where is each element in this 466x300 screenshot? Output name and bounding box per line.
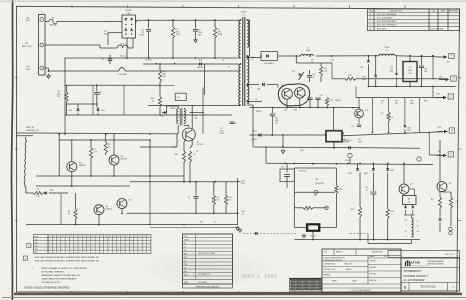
junction y86d	[421, 86, 423, 88]
scan page left edge shadow	[12, 0, 13, 300]
wire u2 down	[333, 142, 335, 148]
junction y107 c	[309, 107, 311, 109]
resistor R7	[89, 148, 92, 159]
junction y163 3	[373, 163, 375, 165]
junction y163 4	[387, 163, 389, 165]
wire stub bridge ac2	[108, 32, 122, 34]
wire v419	[419, 98, 421, 133]
junction R3 top	[159, 63, 161, 65]
wire y163 left drop	[265, 147, 267, 163]
inductor L1	[379, 54, 395, 56]
wire Q3 up	[113, 134, 115, 155]
diode CR12b	[412, 205, 414, 207]
wire u3 right	[320, 227, 336, 229]
diode CR16	[372, 163, 374, 168]
transistor Q7	[295, 88, 306, 99]
wire q7 down	[299, 98, 301, 107]
regulator U2 box	[326, 131, 342, 142]
diode CR18	[438, 218, 441, 220]
wire T1 sec tap4	[247, 104, 253, 106]
wire h176 to R	[140, 175, 184, 177]
junction r12a	[432, 78, 434, 80]
wire dashed2	[243, 233, 296, 235]
junction h176	[149, 175, 151, 177]
wire Q3 down	[113, 165, 115, 176]
wire bottom long bus	[26, 224, 238, 226]
wire q6q7 feed	[295, 56, 297, 63]
junction y239 b	[373, 239, 375, 241]
wire dashed shield	[150, 227, 236, 229]
regulator U4 box	[403, 196, 417, 205]
junction bb1	[75, 224, 77, 226]
junction q2b	[71, 185, 73, 187]
wire Q2 down	[71, 172, 73, 186]
ground dashed end	[239, 229, 241, 230]
junction y224 b	[183, 224, 185, 226]
transistor Q8	[437, 182, 447, 192]
wire T2 left leads	[177, 133, 178, 135]
wire h186	[36, 185, 130, 187]
junction y181 e	[149, 181, 151, 183]
junction y213 f	[213, 213, 215, 215]
wire J1 pin2 right	[45, 44, 100, 46]
junction y224 a	[149, 224, 151, 226]
resistor R10	[225, 182, 227, 195]
junction y56c	[331, 55, 333, 57]
junction c12	[272, 134, 274, 136]
wire y85 ext	[160, 84, 174, 86]
capacitor C8	[230, 121, 235, 123]
connector J1	[39, 15, 46, 76]
resistor R30	[182, 151, 185, 162]
resistor R14h	[345, 77, 356, 80]
wire y86 rail	[368, 85, 456, 87]
junction l1out b	[421, 55, 423, 57]
wire q9 up	[403, 164, 405, 184]
rect CR5 box	[261, 52, 278, 61]
wire v253	[252, 105, 254, 147]
wire CR2 row	[143, 63, 239, 65]
jumper circles r18	[449, 227, 452, 230]
wire right bus v237	[237, 178, 239, 225]
resistor R23	[359, 172, 361, 207]
ground chassis input	[48, 74, 50, 76]
resistor R17b	[388, 98, 390, 113]
wire y155 row	[429, 154, 441, 156]
resistor R13	[325, 98, 328, 106]
wire T1 sec tap1	[247, 57, 261, 59]
wire q6 down	[286, 99, 288, 107]
wire Q5 down	[121, 209, 123, 214]
wire v150 low	[149, 176, 151, 225]
diode CR13	[259, 133, 262, 137]
junction bridge top	[135, 21, 137, 23]
junction y134 row	[58, 133, 60, 135]
wire J1 pin1 to fuse	[45, 21, 49, 23]
right title block	[401, 258, 460, 291]
note2 marker	[23, 256, 27, 260]
wire a1 mid2	[294, 207, 303, 209]
capacitor C15	[309, 99, 311, 108]
revision table	[368, 9, 460, 31]
jumper W1	[325, 206, 329, 210]
junction b181a	[183, 181, 185, 183]
ground u3	[303, 234, 305, 235]
wire tap1 to CR5	[260, 56, 262, 58]
wire v150	[149, 140, 151, 176]
junction y56d	[368, 55, 370, 57]
wire Q4 down	[98, 215, 100, 225]
inductor L2	[412, 218, 414, 237]
capacitor C22	[372, 172, 374, 191]
resistor R17	[439, 191, 441, 197]
junction y56e	[375, 55, 377, 57]
junction y163 0	[284, 163, 286, 165]
junction b134	[149, 133, 151, 135]
capacitor C18r	[421, 56, 423, 65]
resistor R3	[159, 64, 161, 70]
junction l1out c	[432, 55, 434, 57]
junction y56a	[295, 55, 297, 57]
wire C5 to transformer	[125, 70, 239, 72]
inductor L3	[301, 54, 314, 56]
junction R7	[90, 139, 92, 141]
capacitor C23	[372, 224, 374, 226]
diode CR5	[266, 54, 268, 57]
junction R1 top	[172, 19, 174, 21]
wire R5 row	[43, 192, 45, 194]
junction lv59	[58, 133, 60, 135]
wire left vert 59	[58, 134, 60, 176]
wire Q1 collector	[191, 106, 193, 130]
note3 jumper table	[33, 235, 151, 254]
wire a1 mid1	[294, 191, 335, 193]
wire y97 row	[356, 97, 443, 99]
capacitor C7	[109, 55, 111, 58]
center title block	[322, 249, 401, 292]
junction y63 row	[156, 63, 158, 65]
junction C2 top	[195, 19, 197, 21]
wire bus y239	[294, 239, 420, 241]
wire u3 left	[294, 227, 306, 229]
resistor R9	[213, 182, 215, 195]
junction R8	[105, 133, 107, 135]
scan bottom dark band	[14, 293, 462, 296]
junction b181c	[214, 181, 216, 183]
junction b181b	[189, 181, 191, 183]
junction y56 f	[260, 55, 262, 57]
thermistor RT1	[117, 45, 128, 48]
diode CR3	[76, 109, 79, 111]
wire h176	[36, 175, 140, 177]
junction v237	[237, 212, 239, 214]
wire divider left	[64, 58, 66, 115]
junction bottom bus R1	[172, 57, 174, 59]
wire v429	[428, 133, 430, 156]
hatched void block	[290, 278, 322, 291]
wire u2 right	[342, 133, 344, 136]
wire bus y181	[130, 181, 241, 183]
wire q10 up	[358, 98, 360, 110]
wire divider top	[65, 84, 160, 86]
junction y239 a	[359, 239, 361, 241]
resistor R5	[33, 191, 43, 194]
dashed shield diode	[255, 232, 257, 235]
wire bus y213	[127, 212, 238, 214]
junction l1out a	[409, 55, 411, 57]
resistor R6	[74, 209, 77, 219]
fuse F1	[49, 19, 57, 24]
capacitor C9	[195, 182, 197, 196]
transistor Q5	[117, 199, 127, 209]
wire RT1 to bridge	[128, 47, 133, 49]
junction y86b	[396, 86, 398, 88]
junction v150	[149, 139, 151, 141]
wire T1 top right tap	[247, 19, 249, 21]
wire bridge out top	[136, 19, 241, 21]
capacitor C1	[148, 20, 150, 28]
diode CR2	[199, 62, 201, 65]
reference designator table	[183, 234, 233, 288]
diode CR12a	[405, 205, 407, 207]
transistor Q2	[67, 162, 77, 172]
junction v429	[428, 132, 430, 134]
capacitor C13	[309, 70, 311, 75]
junction y131a	[372, 132, 374, 134]
snubber box	[175, 93, 186, 100]
wire bus y135	[250, 134, 327, 136]
junction y58 row	[195, 57, 197, 59]
scan top streak	[0, 0, 466, 2]
junction bottom bus R2	[214, 57, 216, 59]
earth loop coil	[24, 137, 26, 187]
wire a1 left vert	[293, 168, 295, 228]
junction y86a	[375, 86, 377, 88]
resistor R8	[104, 142, 107, 153]
regulator U3 box	[306, 223, 321, 232]
junction y213 e	[195, 213, 197, 215]
wire divider bottom	[65, 114, 232, 116]
wire u2 top feed	[333, 108, 335, 131]
note3 marker	[27, 243, 31, 247]
wire T1 sec tap2	[247, 84, 259, 86]
resistor R2	[214, 20, 216, 27]
diode CR15	[357, 163, 359, 168]
wire bottom bus	[65, 57, 241, 59]
junction y163 5	[403, 163, 405, 165]
diode CR20	[164, 111, 166, 114]
wire v332	[331, 63, 333, 79]
jumper circle right	[417, 157, 421, 161]
junction b181d	[195, 181, 197, 183]
junction y163 1	[347, 163, 349, 165]
wire divider inner	[67, 103, 99, 105]
junction y163 x	[293, 163, 295, 165]
wire CR2 drop	[204, 64, 206, 95]
junction y239 c	[387, 239, 389, 241]
junction y86e	[432, 86, 434, 88]
resistor R24	[387, 172, 389, 208]
diode on y147	[348, 146, 350, 149]
wire Q1 emitter split	[184, 139, 186, 142]
output +12V	[439, 79, 446, 81]
junction y135	[282, 134, 284, 136]
wire T1 pri bottom	[239, 105, 241, 107]
capacitor C17	[409, 56, 411, 62]
transistor Q9	[399, 184, 409, 194]
diode CR8	[367, 56, 369, 60]
capacitor C21 box	[280, 169, 294, 182]
resistor R29	[159, 85, 161, 96]
wire L1 to out	[395, 56, 437, 57]
wire bus y56 cont	[296, 55, 300, 57]
capacitor C5 line	[45, 67, 49, 69]
wire y190 right	[442, 191, 451, 193]
wire y131 row	[342, 132, 443, 136]
capacitor C12	[272, 108, 274, 114]
wire h147 seg	[140, 146, 177, 148]
wire a1 top	[294, 167, 336, 169]
capacitor C6	[96, 85, 98, 91]
wire dash right	[350, 233, 368, 235]
wire u3 down	[312, 232, 314, 240]
transformer T1	[239, 12, 249, 107]
wire Q2 collector up	[71, 140, 73, 162]
transistor Q4	[94, 205, 104, 215]
ground earth coil	[26, 192, 33, 194]
junction C1 top	[148, 19, 150, 21]
diode CR10	[375, 56, 377, 75]
junction y131b	[388, 132, 390, 134]
wire L2 bottom	[368, 243, 412, 245]
junction y135 b	[271, 134, 273, 136]
ground C2	[195, 38, 197, 40]
transistor Q10	[355, 109, 364, 118]
capacitor C5	[119, 68, 125, 71]
wire +12V rail2	[356, 78, 445, 80]
wire bus y147	[253, 147, 420, 148]
wire T2 to Q1	[184, 125, 189, 127]
wire q10 down	[358, 118, 360, 124]
diode CR4	[96, 109, 99, 111]
wire mains earth pair	[17, 132, 34, 134]
junction y86 f	[368, 86, 370, 88]
junction y107b	[299, 107, 301, 109]
wire +12V rail	[332, 78, 345, 80]
junction t1 taps	[246, 57, 248, 59]
sheet strip	[388, 251, 460, 258]
resistor R1	[172, 20, 174, 27]
scan bottom thin line	[2, 296, 466, 298]
transistor Q1	[182, 128, 195, 141]
wire fuse to bridge	[57, 21, 122, 23]
wire v433 top	[432, 56, 434, 79]
capacitor C2	[195, 20, 197, 28]
resistor R22	[335, 168, 337, 185]
wire left bus top	[33, 132, 177, 135]
wire bus y107	[250, 107, 361, 109]
wire h140	[59, 139, 150, 141]
junction input gnd	[48, 70, 50, 72]
bridge rectifier CR1	[122, 10, 136, 38]
wire q9 down	[403, 194, 405, 196]
transistor Q3	[109, 155, 119, 165]
junction C6 top	[96, 84, 98, 86]
wire v372	[371, 98, 373, 133]
junction y224 c	[98, 224, 100, 226]
output -5V	[437, 154, 444, 156]
junction bottom bus C1	[148, 57, 150, 59]
junction y131c	[404, 132, 406, 134]
junction y85	[159, 85, 161, 87]
resistor R18	[449, 197, 452, 208]
ground v237	[237, 226, 239, 228]
capacitor C16	[317, 99, 319, 108]
junction R2 top	[214, 19, 216, 21]
diode C14d	[396, 56, 398, 73]
wire bus y163	[266, 163, 433, 164]
diode CR11	[404, 98, 406, 126]
ink annotation loop	[278, 84, 309, 106]
resistor R31	[188, 151, 191, 162]
wire v283 gnd	[282, 135, 284, 147]
junction b134b	[105, 139, 107, 141]
diode CR17	[387, 163, 389, 168]
junction y107a	[286, 107, 288, 109]
transformer T2	[171, 106, 197, 126]
output GND arrow	[438, 131, 445, 133]
wire y63 seg	[296, 62, 332, 64]
junction y56 d	[252, 57, 254, 59]
jumper W2	[314, 190, 318, 194]
wire T1 sec tap3	[247, 101, 262, 103]
junction y86c	[409, 86, 411, 88]
resistor R12	[320, 63, 322, 66]
junction y163 2	[359, 163, 361, 165]
diode CR6	[45, 191, 47, 194]
wire u4 rail	[404, 214, 415, 216]
zener CR7	[298, 73, 302, 77]
output +5V	[437, 56, 444, 58]
wire v204 bottom	[231, 119, 233, 121]
wire q9 to u4	[409, 188, 415, 190]
resistor R4	[65, 92, 68, 102]
output +5V sense	[437, 97, 444, 99]
junction y56b	[309, 55, 311, 57]
transistor Q6	[282, 89, 293, 100]
wire v440	[439, 140, 441, 182]
junction bb2	[98, 224, 100, 226]
